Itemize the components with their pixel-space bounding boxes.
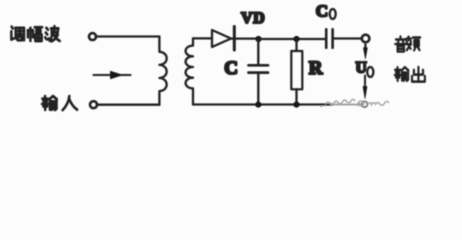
入	[63, 96, 77, 110]
波	[45, 26, 59, 41]
transformer primary winding L1	[159, 37, 166, 105]
wire: top-left terminal to transformer	[96, 35, 159, 37]
调	[11, 27, 24, 41]
svg-text:C: C	[316, 1, 328, 20]
wire: bottom-left terminal to transformer	[97, 104, 159, 106]
faint print artifact above VD	[245, 4, 261, 6]
capacitor C	[249, 39, 269, 104]
bottom wire: secondary to output	[193, 103, 332, 105]
音	[395, 36, 406, 51]
label 音频 (audio)	[395, 36, 420, 51]
node: diode output junction	[255, 36, 261, 42]
出	[412, 67, 425, 82]
resistor R	[291, 39, 302, 104]
node: capacitor C bottom junction	[255, 102, 261, 108]
频	[406, 37, 420, 51]
input terminal top-left	[89, 33, 96, 40]
label 输入 (input)	[42, 96, 77, 110]
transformer secondary winding L2	[186, 38, 193, 104]
diode VD	[212, 27, 256, 51]
bottom wire faded segment	[332, 104, 360, 106]
node: resistor bottom junction	[293, 102, 299, 108]
input terminal bottom-left	[90, 101, 97, 108]
输	[395, 67, 409, 81]
svg-text:R: R	[309, 58, 323, 79]
label 调幅波 (AM wave)	[11, 26, 59, 41]
output terminal top-right	[362, 35, 370, 43]
capacitor C0	[326, 29, 361, 47]
svg-text:U: U	[356, 60, 367, 77]
svg-text:C: C	[224, 58, 238, 79]
label 输出 (output)	[395, 67, 425, 82]
wire: junction to C0	[259, 38, 327, 40]
output terminal bottom-right	[362, 101, 368, 107]
svg-text:VD: VD	[241, 10, 265, 27]
输	[42, 96, 57, 110]
U0 voltage arrow upper	[364, 45, 368, 59]
signal-direction arrow (input)	[94, 71, 131, 78]
U0 voltage arrow lower	[363, 76, 367, 99]
幅	[28, 27, 42, 41]
node: resistor top junction	[293, 36, 299, 42]
watermark squiggle	[320, 99, 389, 106]
wire: secondary top to diode	[193, 37, 212, 39]
